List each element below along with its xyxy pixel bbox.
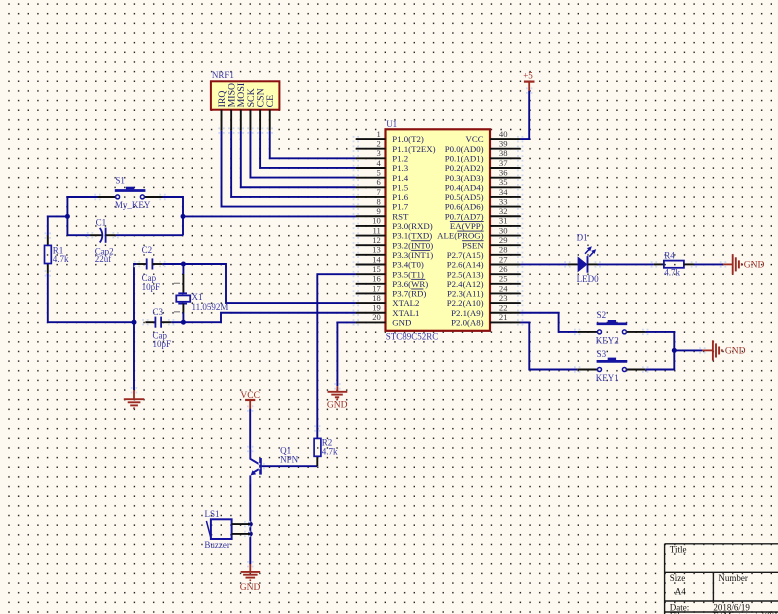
svg-text:GND: GND: [744, 260, 765, 270]
resistor R2 4.7k: [314, 438, 321, 456]
svg-text:P3.7(RD): P3.7(RD): [392, 289, 426, 299]
wire NRF1 CE to U1: [270, 131, 356, 159]
U1 pin 20 GND: [356, 312, 412, 327]
svg-text:17: 17: [372, 283, 381, 293]
junction keys ground bus: [672, 348, 677, 353]
svg-text:10: 10: [372, 216, 381, 226]
U1 pin 40 VCC: [466, 129, 521, 144]
svg-text:5: 5: [377, 167, 381, 177]
svg-text:22uf: 22uf: [95, 254, 112, 264]
svg-text:ALE(PROG): ALE(PROG): [437, 231, 483, 241]
wire S1/C1 loop bottom left: [67, 234, 90, 236]
power +5: [523, 71, 534, 91]
U1 pin 27 P2.6(A14): [447, 254, 521, 269]
NRF1 pin MISO: [227, 83, 238, 131]
wire crystal rail to ground: [133, 322, 135, 390]
svg-text:26: 26: [499, 264, 508, 274]
svg-text:P3.5(T1): P3.5(T1): [392, 269, 424, 279]
U1 pin 39 P0.0(AD0): [445, 139, 520, 154]
wire U1 pin 20 GND drop: [337, 322, 355, 386]
svg-text:P2.0(A8): P2.0(A8): [451, 318, 484, 328]
svg-text:6: 6: [377, 177, 382, 187]
U1 pin 37 P0.2(AD2): [445, 158, 520, 173]
svg-text:35: 35: [499, 177, 508, 187]
svg-text:15: 15: [372, 264, 381, 274]
NRF1 pin CSN: [256, 88, 267, 130]
ground GND (U1 pin 20): [327, 386, 348, 410]
svg-text:A4: A4: [675, 586, 686, 596]
svg-text:16: 16: [372, 274, 381, 284]
svg-text:4.7k: 4.7k: [53, 254, 69, 264]
svg-text:21: 21: [499, 312, 508, 322]
crystal X1 11.0592M: [174, 274, 190, 313]
wire R2 bottom lead: [316, 456, 318, 466]
svg-text:VCC: VCC: [466, 134, 484, 144]
U1 pin 23 P2.2(A10): [447, 293, 521, 308]
svg-text:19: 19: [372, 303, 381, 313]
svg-text:32: 32: [499, 206, 508, 216]
svg-text:X1: X1: [192, 292, 203, 302]
U1 pin 36 P0.3(AD3): [445, 167, 520, 182]
svg-text:23: 23: [499, 293, 508, 303]
svg-text:25: 25: [499, 274, 508, 284]
svg-text:13: 13: [372, 245, 381, 255]
svg-text:P0.6(AD6): P0.6(AD6): [445, 202, 484, 212]
svg-text:CE: CE: [265, 95, 276, 108]
resistor R1 4.7k: [45, 236, 52, 274]
svg-text:10pF: 10pF: [153, 339, 172, 349]
wire U1 pin 15 to R2 top: [317, 274, 356, 438]
U1 pin 3 P1.2: [356, 148, 408, 163]
U1 pin 28 P2.7(A15): [447, 245, 521, 260]
NRF1 pin SCK: [246, 88, 257, 130]
U1 pin 35 P0.4(AD4): [445, 177, 520, 192]
NRF1 pin IRQ: [217, 91, 228, 131]
svg-text:28: 28: [499, 245, 508, 255]
junction X1 top: [181, 262, 186, 267]
svg-text:P0.2(AD2): P0.2(AD2): [445, 163, 484, 173]
svg-text:P1.5: P1.5: [392, 182, 408, 192]
wire C2 to XTAL2 (U1 pin 18): [162, 264, 355, 303]
U1 pin 5 P1.4: [356, 167, 409, 182]
svg-text:29: 29: [499, 235, 508, 245]
svg-text:KEY1: KEY1: [596, 373, 619, 383]
wire S3 to ground bus: [645, 350, 674, 369]
wire U1 pin 21 to switch S3: [520, 322, 577, 369]
svg-text:3: 3: [377, 148, 381, 158]
svg-text:P0.3(AD3): P0.3(AD3): [445, 173, 484, 183]
svg-text:NPN: NPN: [280, 454, 299, 464]
wire U1 pin 27 to LED D1: [520, 263, 567, 265]
svg-text:P1.4: P1.4: [392, 173, 408, 183]
junction S1 loop right / RST: [181, 214, 186, 219]
wire VCC to Q1 collector: [249, 409, 251, 449]
svg-text:C2: C2: [142, 245, 153, 255]
wire Q1 base to R2 bottom: [262, 465, 318, 467]
svg-text:31: 31: [499, 216, 508, 226]
U1 pin 17 P3.7(RD): [356, 283, 427, 298]
svg-text:P2.3(A11): P2.3(A11): [447, 289, 484, 299]
U1 pin 13 P3.3(INT1): [356, 245, 433, 260]
svg-text:P3.2(INT0): P3.2(INT0): [392, 240, 433, 250]
svg-text:P3.0(RXD): P3.0(RXD): [392, 221, 432, 231]
svg-text:S3: S3: [597, 349, 607, 359]
svg-text:P2.5(A13): P2.5(A13): [447, 269, 484, 279]
svg-text:R4: R4: [664, 250, 675, 260]
U1 pin 18 XTAL2: [356, 293, 420, 308]
U1 pin 11 P3.1(TXD): [356, 225, 432, 240]
svg-text:GND: GND: [392, 318, 411, 328]
wire U1 pin 22 to switch S2: [520, 313, 577, 332]
svg-text:P1.0(T2): P1.0(T2): [392, 134, 424, 144]
wire Q1 emitter to buzzer/ground: [249, 484, 251, 564]
svg-text:P2.4(A12): P2.4(A12): [447, 279, 484, 289]
svg-text:C3: C3: [153, 307, 164, 317]
capacitor C3 10pF: [145, 317, 171, 328]
svg-text:P1.6: P1.6: [392, 192, 408, 202]
svg-text:P1.1(T2EX): P1.1(T2EX): [392, 144, 435, 154]
svg-text:LS1: LS1: [205, 509, 220, 519]
wire node RST to U1 pin 9: [183, 215, 356, 217]
svg-text:18: 18: [372, 293, 381, 303]
svg-text:P0.5(AD5): P0.5(AD5): [445, 192, 484, 202]
NRF1 pin MOSI: [236, 83, 247, 131]
svg-text:P0.4(AD4): P0.4(AD4): [445, 182, 484, 192]
svg-text:EA(VPP): EA(VPP): [450, 221, 484, 231]
wire X1 top lead: [182, 264, 184, 274]
U1 pin 16 P3.6(WR): [356, 274, 429, 289]
svg-text:P0.7(AD7): P0.7(AD7): [445, 211, 484, 221]
svg-text:1: 1: [377, 129, 381, 139]
svg-text:37: 37: [499, 158, 508, 168]
power ground GND (keys): [702, 340, 745, 360]
svg-text:27: 27: [499, 254, 508, 264]
wire S1 loop top-left corner: [67, 197, 97, 235]
svg-text:Buzzer: Buzzer: [204, 540, 229, 550]
svg-text:XTAL1: XTAL1: [392, 308, 419, 318]
wire junction to R1 top: [48, 216, 68, 235]
power ground GND (after R4): [723, 254, 765, 274]
U1 pin 7 P1.6: [356, 187, 409, 202]
junction ground rail: [132, 320, 137, 325]
svg-text:P3.1(TXD): P3.1(TXD): [392, 231, 432, 241]
switch S3 KEY1: [577, 358, 645, 372]
svg-text:11.0592M: 11.0592M: [192, 302, 229, 312]
svg-text:KEY2: KEY2: [596, 335, 619, 345]
wire NRF1 CSN to U1: [260, 131, 356, 168]
svg-text:P3.6(WR): P3.6(WR): [392, 279, 428, 289]
capacitor C1 Cap2 22uf: [90, 228, 116, 243]
svg-text:P0.0(AD0): P0.0(AD0): [445, 144, 484, 154]
U1 pin 38 P0.1(AD1): [445, 148, 520, 163]
svg-text:PSEN: PSEN: [462, 240, 484, 250]
svg-text:P0.1(AD1): P0.1(AD1): [445, 153, 484, 163]
svg-text:GND: GND: [240, 583, 261, 593]
svg-text:S1: S1: [115, 175, 125, 185]
switch S1 My_KEY: [98, 187, 163, 199]
svg-text:P2.7(A15): P2.7(A15): [447, 250, 484, 260]
svg-text:STC89C52RC: STC89C52RC: [386, 331, 439, 341]
svg-text:4.7k: 4.7k: [664, 268, 680, 278]
wire key ground bus to GND symbol: [674, 349, 702, 351]
U1 pin 4 P1.3: [356, 158, 409, 173]
U1 pin 9 RST: [356, 206, 409, 221]
power VCC: [240, 391, 260, 409]
svg-text:4.7k: 4.7k: [322, 447, 338, 457]
U1 pin 30 ALE(PROG): [437, 225, 520, 240]
U1 pin 12 P3.2(INT0): [356, 235, 433, 250]
wire X1 bottom lead to rail: [182, 313, 184, 323]
svg-text:P1.2: P1.2: [392, 153, 408, 163]
svg-text:33: 33: [499, 196, 508, 206]
capacitor C2 10pF: [137, 258, 163, 269]
U1 pin 14 P3.4(T0): [356, 254, 424, 269]
resistor R4 4.7k: [654, 261, 694, 268]
junction buzzer pin 2: [248, 531, 253, 536]
svg-text:38: 38: [499, 148, 508, 158]
wire bottom rail to XTAL1 (U1 pin 19): [171, 313, 356, 322]
svg-text:P2.6(A14): P2.6(A14): [447, 260, 484, 270]
svg-text:11: 11: [373, 225, 381, 235]
svg-text:39: 39: [499, 139, 508, 149]
svg-text:Number: Number: [718, 573, 748, 583]
U1 pin 21 P2.0(A8): [451, 312, 520, 327]
U1 pin 29 PSEN: [462, 235, 520, 250]
svg-text:P3.4(T0): P3.4(T0): [392, 260, 424, 270]
U1 pin 10 P3.0(RXD): [356, 216, 433, 231]
U1 pin 24 P2.3(A11): [447, 283, 520, 298]
IC U1 STC89C52RC body: [386, 129, 491, 330]
wire R1 bottom to ground rail: [48, 273, 134, 322]
svg-text:12: 12: [372, 235, 381, 245]
connector NRF1: [211, 81, 280, 109]
U1 pin 8 P1.7: [356, 196, 409, 211]
svg-text:My_KEY: My_KEY: [115, 200, 151, 210]
junction S1 loop left: [65, 214, 70, 219]
svg-text:34: 34: [499, 187, 508, 197]
svg-text:8: 8: [377, 196, 381, 206]
svg-text:+5: +5: [523, 71, 533, 81]
svg-text:20: 20: [372, 312, 381, 322]
ground GND (buzzer): [240, 564, 261, 593]
svg-text:GND: GND: [725, 347, 746, 357]
svg-text:RST: RST: [392, 211, 409, 221]
junction buzzer pin 1: [248, 522, 253, 527]
U1 pin 31 EA(VPP): [450, 216, 520, 231]
U1 pin 19 XTAL1: [356, 303, 420, 318]
U1 pin 1 P1.0(T2): [356, 129, 424, 144]
buzzer LS1: [206, 519, 250, 539]
wire NRF1 MOSI to U1: [241, 131, 356, 188]
U1 pin 6 P1.5: [356, 177, 409, 192]
svg-text:P2.1(A9): P2.1(A9): [451, 308, 484, 318]
svg-text:XTAL2: XTAL2: [392, 298, 419, 308]
NRF1 pin CE: [265, 95, 276, 131]
U1 pin 2 P1.1(T2EX): [356, 139, 436, 154]
U1 pin 25 P2.4(A12): [447, 274, 521, 289]
svg-text:GND: GND: [327, 400, 348, 410]
svg-text:P1.7: P1.7: [392, 202, 408, 212]
svg-text:2: 2: [377, 139, 381, 149]
svg-text:C1: C1: [96, 217, 107, 227]
svg-text:P2.2(A10): P2.2(A10): [447, 298, 484, 308]
svg-text:Title: Title: [670, 545, 687, 555]
wire S1 loop top-right corner: [163, 197, 184, 235]
svg-text:30: 30: [499, 225, 508, 235]
svg-text:Size: Size: [670, 573, 686, 583]
wire NRF1 MISO to U1: [231, 131, 356, 197]
svg-text:LED0: LED0: [577, 274, 599, 284]
wire S1/C1 loop bottom right: [116, 234, 183, 236]
transistor Q1 NPN: [250, 449, 260, 484]
wire LED D1 to R4: [598, 263, 654, 265]
svg-text:9: 9: [377, 206, 381, 216]
junction X1 bottom: [181, 320, 186, 325]
svg-text:S2: S2: [597, 310, 607, 320]
U1 pin 33 P0.6(AD6): [445, 196, 520, 211]
svg-text:24: 24: [499, 283, 508, 293]
wire NRF1 IRQ to U1: [222, 131, 356, 207]
svg-text:U1: U1: [386, 119, 397, 129]
svg-text:22: 22: [499, 303, 508, 313]
svg-text:10pF: 10pF: [142, 282, 161, 292]
svg-text:D1: D1: [577, 232, 588, 242]
LED D1 LED0: [567, 246, 597, 272]
svg-text:7: 7: [377, 187, 382, 197]
wire crystal loop left vertical: [134, 264, 137, 322]
U1 pin 22 P2.1(A9): [451, 303, 520, 318]
U1 pin 26 P2.5(A13): [447, 264, 521, 279]
U1 pin 32 P0.7(AD7): [445, 206, 520, 221]
U1 pin 15 P3.5(T1): [356, 264, 424, 279]
svg-text:P3.3(INT1): P3.3(INT1): [392, 250, 433, 260]
svg-text:P1.3: P1.3: [392, 163, 408, 173]
svg-text:40: 40: [499, 129, 508, 139]
wire NRF1 SCK to U1: [250, 131, 355, 178]
svg-text:36: 36: [499, 167, 508, 177]
U1 pin 34 P0.5(AD5): [445, 187, 520, 202]
svg-text:14: 14: [372, 254, 381, 264]
wire +5 to U1 pin 40: [520, 91, 529, 139]
svg-text:NRF1: NRF1: [212, 70, 234, 80]
ground (crystal capacitors): [124, 390, 144, 408]
svg-text:4: 4: [377, 158, 382, 168]
switch S2 KEY2: [577, 320, 645, 334]
title block frame: [665, 544, 778, 614]
wire S2 to ground bus: [645, 332, 674, 351]
wire R4 to GND symbol: [694, 263, 723, 265]
